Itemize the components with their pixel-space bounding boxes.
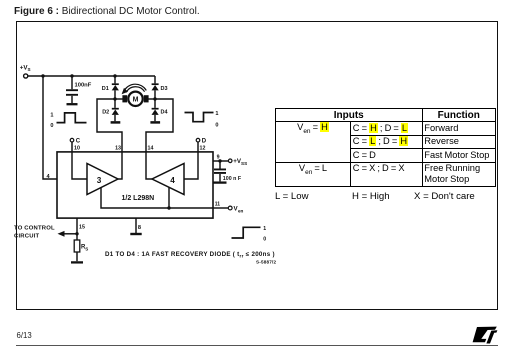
footer rule [16, 345, 498, 346]
rotation arrows above motor [122, 84, 147, 94]
wire supply rail [27, 75, 155, 77]
svg-text:D1 TO D4 : 1A FAST RECOVERY DI: D1 TO D4 : 1A FAST RECOVERY DIODE ( trr … [105, 251, 275, 259]
svg-text:0: 0 [215, 123, 218, 129]
node +VSS label [233, 158, 247, 166]
ground below D2 [111, 121, 121, 124]
svg-text:14: 14 [148, 146, 154, 152]
svg-text:en: en [238, 208, 244, 213]
legend H [352, 191, 390, 202]
junction left rail [41, 74, 44, 77]
title [14, 6, 200, 17]
IC box 1/2 L298N [57, 152, 213, 218]
pin 11 wire [213, 207, 228, 209]
wire C input to driver 3 [72, 142, 87, 179]
wire to control circuit [64, 233, 77, 235]
terminal +VS [24, 74, 28, 78]
capacitor C1 100nF [66, 76, 78, 103]
wire left rail to pin 4 [43, 76, 57, 179]
legend X [414, 191, 475, 202]
terminal D [196, 138, 200, 142]
ground below C2 [214, 181, 227, 183]
svg-text:D3: D3 [161, 86, 168, 92]
ground below D4 [150, 121, 160, 124]
svg-text:SS: SS [241, 161, 247, 166]
svg-text:10: 10 [74, 146, 80, 152]
capacitor C2 [214, 161, 226, 181]
svg-text:S: S [85, 246, 88, 251]
svg-text:1/2 L298N: 1/2 L298N [122, 195, 155, 202]
svg-text:C: C [76, 138, 81, 144]
svg-text:D1: D1 [102, 86, 109, 92]
pin 15 wire [76, 218, 78, 234]
wire enable bus [101, 188, 213, 209]
svg-text:100 n F: 100 n F [223, 176, 242, 182]
svg-text:100nF: 100nF [75, 82, 92, 88]
svg-text:15: 15 [79, 224, 85, 230]
resistor RS [74, 234, 80, 261]
pin 8 wire [135, 218, 137, 233]
svg-text:4: 4 [170, 176, 175, 185]
svg-text:8: 8 [138, 225, 141, 231]
wire bridge left to pin 13 [97, 99, 122, 179]
svg-text:D: D [202, 138, 207, 144]
waveform D input pulse [185, 113, 214, 122]
terminal +VSS [228, 159, 232, 163]
svg-text:3: 3 [97, 176, 102, 185]
terminal C [70, 138, 74, 142]
label RS [81, 245, 88, 252]
ground below RS [71, 261, 83, 263]
diode D1 [112, 76, 119, 99]
junction cap branch [70, 74, 73, 77]
svg-text:0: 0 [263, 236, 266, 242]
diode D4 [152, 99, 159, 121]
junction enable [167, 206, 170, 209]
svg-text:M: M [133, 97, 139, 104]
pin 9 wire [213, 160, 228, 162]
page number [17, 331, 32, 340]
ground pin 8 [130, 233, 141, 235]
svg-text:1: 1 [50, 112, 53, 118]
svg-text:12: 12 [200, 146, 206, 152]
arrow to control circuit [58, 231, 65, 237]
svg-text:1: 1 [215, 111, 218, 117]
diode D2 [112, 99, 119, 121]
svg-text:S: S [28, 67, 31, 72]
node motor left junction [113, 97, 116, 100]
svg-text:11: 11 [215, 201, 221, 207]
wire D input to driver 4 [184, 142, 198, 179]
label TO CONTROL CIRCUIT [14, 225, 55, 239]
node motor right junction [153, 97, 156, 100]
junction D1 branch [113, 74, 116, 77]
waveform C input pulse [57, 113, 87, 123]
ST logo [470, 322, 502, 346]
waveform Ven step [232, 227, 261, 238]
motor M [122, 92, 148, 106]
figure frame [16, 21, 499, 311]
svg-text:D2: D2 [102, 110, 109, 116]
svg-text:S-5887/2: S-5887/2 [256, 260, 276, 265]
wire enable driver 4 [168, 188, 170, 209]
node +VS label [20, 65, 31, 73]
svg-text:CIRCUIT: CIRCUIT [14, 234, 39, 240]
driver 3 [87, 164, 118, 195]
junction pin 15 [75, 232, 78, 235]
legend L [275, 191, 309, 202]
junction pin 9 [218, 159, 221, 162]
svg-text:D4: D4 [161, 110, 169, 116]
terminal Ven [228, 206, 232, 210]
diode D3 [152, 76, 159, 99]
wire motor right [145, 98, 155, 100]
svg-text:TO CONTROL: TO CONTROL [14, 225, 55, 231]
svg-text:1: 1 [263, 226, 266, 232]
ground below C1 [67, 103, 78, 105]
wire bridge right to pin 14 [146, 99, 173, 179]
node Ven label [234, 206, 244, 214]
truth table [275, 108, 496, 187]
svg-text:13: 13 [115, 146, 121, 152]
svg-text:0: 0 [50, 123, 53, 129]
wire motor left [115, 98, 125, 100]
driver 4 [152, 164, 184, 195]
